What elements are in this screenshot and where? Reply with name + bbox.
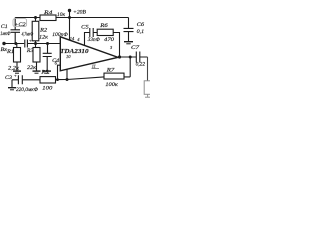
- wire feedback drop from output: [129, 57, 131, 77]
- svg-text:C6: C6: [137, 22, 145, 28]
- svg-text:100: 100: [42, 86, 52, 92]
- svg-text:100к: 100к: [105, 82, 118, 88]
- svg-text:12к: 12к: [39, 35, 48, 41]
- wire pin 11 lead: [66, 69, 68, 79]
- svg-text:C7: C7: [131, 45, 140, 51]
- node pin11 junction: [66, 78, 69, 81]
- svg-text:+: +: [14, 73, 17, 78]
- wire output: [118, 56, 136, 58]
- svg-text:14: 14: [70, 36, 75, 41]
- capacitor C7: [136, 52, 147, 63]
- wire C6 branch from rail: [128, 18, 130, 29]
- svg-text:C5: C5: [81, 25, 89, 31]
- node rail/riser junction: [68, 16, 71, 19]
- node C4 on input wire: [46, 42, 49, 45]
- capacitor C5: [85, 28, 99, 45]
- svg-text:R1: R1: [6, 49, 15, 55]
- wire pin 6 lead: [58, 65, 61, 79]
- svg-text:+C2: +C2: [14, 22, 26, 28]
- svg-text:+20В: +20В: [73, 11, 86, 16]
- svg-text:10к: 10к: [57, 12, 65, 18]
- svg-text:2,2к: 2,2к: [8, 66, 20, 72]
- node +20V terminal: [68, 9, 71, 12]
- resistor R6: [97, 29, 113, 35]
- svg-text:+: +: [29, 38, 32, 43]
- resistor R3: [35, 44, 37, 48]
- label grey box around +C2: [13, 19, 27, 27]
- svg-text:4,7мкФ: 4,7мкФ: [22, 32, 34, 37]
- svg-text:100пФ: 100пФ: [52, 32, 68, 38]
- svg-text:220,0мкФ: 220,0мкФ: [16, 88, 38, 93]
- capacitor C2 (series, polarized): [25, 40, 28, 48]
- svg-text:R4: R4: [43, 9, 53, 16]
- wire bottom feedback line: [58, 77, 131, 80]
- resistor R2: [35, 18, 37, 22]
- resistor R7: [104, 73, 124, 79]
- wire input line: [4, 43, 60, 45]
- svg-text:22к: 22к: [27, 65, 37, 71]
- svg-text:TDA2310: TDA2310: [60, 48, 89, 55]
- load (speaker) grey: [144, 81, 151, 97]
- node pin6/R5/feedback junction: [56, 78, 59, 81]
- svg-text:1мкФ: 1мкФ: [0, 31, 11, 37]
- wire top rail: [15, 17, 128, 19]
- ground at C3: [11, 80, 13, 88]
- svg-text:C3: C3: [5, 75, 12, 81]
- svg-text:R2: R2: [39, 28, 48, 34]
- ground under C4: [43, 70, 51, 72]
- wire +20V riser to pins 14/4: [69, 11, 71, 40]
- svg-text:R5: R5: [40, 70, 49, 76]
- resistor R5: [40, 77, 56, 83]
- node R2/R3 input wire: [34, 42, 37, 45]
- capacitor C4: [43, 44, 52, 71]
- svg-text:R7: R7: [106, 68, 115, 74]
- capacitor C1: [11, 18, 21, 44]
- svg-text:0,22: 0,22: [136, 62, 146, 67]
- svg-text:33пФ: 33пФ: [88, 38, 100, 43]
- ground under R1: [13, 70, 21, 72]
- node input terminal: [2, 42, 5, 45]
- svg-text:0,1: 0,1: [137, 29, 145, 35]
- svg-text:10: 10: [66, 54, 71, 59]
- resistor R4: [40, 15, 56, 21]
- node output: [118, 55, 121, 58]
- ground under C6: [124, 41, 133, 43]
- node rail/R2: [34, 16, 37, 19]
- node junction C1/R1 on input wire: [14, 42, 17, 45]
- svg-text:470: 470: [104, 38, 115, 43]
- capacitor C6: [124, 28, 134, 41]
- svg-text:R6: R6: [99, 23, 108, 29]
- op-amp U1 TDA2310: [60, 37, 118, 71]
- ground under R3: [33, 70, 41, 72]
- wire to load: [147, 57, 149, 81]
- node output/C7/feedback: [129, 56, 132, 59]
- svg-text:C1: C1: [1, 24, 8, 30]
- capacitor C3 (series, polarized): [12, 75, 40, 84]
- svg-text:R3: R3: [26, 48, 34, 54]
- svg-text:11: 11: [92, 64, 96, 69]
- resistor R1: [16, 44, 18, 48]
